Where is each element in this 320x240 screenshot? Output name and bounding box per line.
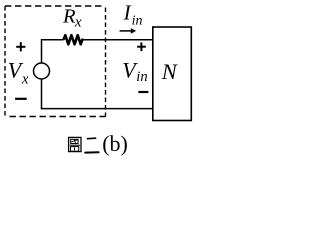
dashed box bottom edge [10, 116, 106, 118]
caption glyph 圖 (drawn) [69, 137, 81, 151]
svg-text:R: R [62, 6, 76, 28]
minus sign of source polarity [15, 98, 27, 100]
dashed box (Thevenin source enclosure) top edge [5, 5, 104, 7]
dashed box right edge [105, 8, 107, 117]
current arrow Iin [120, 30, 132, 32]
voltage source Vx circle [34, 63, 50, 79]
caption glyph 二 (drawn) [85, 138, 98, 152]
svg-text:N: N [161, 59, 179, 84]
wire: left vertical below source [41, 79, 43, 109]
svg-text:in: in [136, 69, 147, 85]
resistor Rx zigzag [64, 35, 84, 44]
wire: bottom rail [41, 108, 153, 110]
minus sign of Vin polarity [138, 91, 148, 93]
wire: top-left corner, vertical from source top to top rail [42, 40, 64, 63]
plus sign of Vin polarity [137, 42, 146, 51]
dashed box left edge [4, 6, 6, 117]
svg-text:I: I [123, 1, 132, 25]
svg-text:(b): (b) [102, 131, 128, 156]
svg-text:x: x [74, 14, 82, 30]
two-port network box N [153, 27, 192, 121]
svg-text:in: in [132, 13, 143, 28]
svg-text:x: x [21, 71, 29, 87]
wire: top rail from resistor to N box [83, 39, 153, 41]
plus sign of source polarity [16, 42, 25, 51]
